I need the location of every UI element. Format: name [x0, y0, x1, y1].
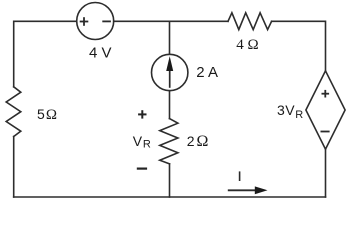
dependent source plus sign [322, 90, 330, 98]
node VR plus sign [138, 110, 146, 118]
current I label [239, 171, 241, 181]
wire middle branch top (top node to current source) [169, 21, 171, 54]
resistor R2 5 ohm zigzag [6, 87, 21, 137]
resistor R1 4 ohm zigzag [228, 13, 272, 30]
wire bottom rail [14, 196, 326, 198]
wire top-left (node A to V1, and left rail down to R 5ohm) [14, 21, 77, 87]
wire top-right (R 4ohm to right rail down to dependent source) [272, 21, 326, 71]
resistor R3 2 ohm zigzag [160, 119, 178, 164]
svg-text:5Ω: 5Ω [37, 106, 57, 123]
svg-text:2Ω: 2Ω [187, 133, 209, 150]
svg-text:V: V [285, 102, 295, 118]
svg-text:4 V: 4 V [89, 45, 112, 62]
dependent source minus sign [321, 131, 330, 133]
svg-text:2 A: 2 A [196, 64, 218, 81]
svg-text:3: 3 [277, 102, 285, 118]
V1 minus sign [102, 20, 111, 22]
svg-text:V: V [133, 133, 143, 149]
wire middle branch bottom (R 2ohm to bottom rail) [169, 164, 171, 197]
current I arrow [228, 186, 268, 194]
wire middle branch mid (current source to R 2ohm) [169, 91, 171, 119]
node VR minus sign [137, 168, 147, 170]
svg-text:R: R [295, 109, 303, 121]
voltage source V1 circle [77, 3, 114, 40]
svg-text:R: R [143, 138, 151, 150]
wire left-bottom (R 5ohm to bottom rail) [13, 137, 15, 198]
current source I1 circle [152, 54, 188, 90]
V1 plus sign [80, 17, 89, 26]
dependent source E1 diamond [306, 71, 345, 149]
wire right-bottom (dependent source to bottom rail) [325, 149, 327, 197]
svg-text:4Ω: 4Ω [236, 37, 258, 53]
I1 current source arrow [166, 56, 173, 88]
wire top-middle (V1 to node of current source branch to R 4ohm) [114, 20, 228, 22]
